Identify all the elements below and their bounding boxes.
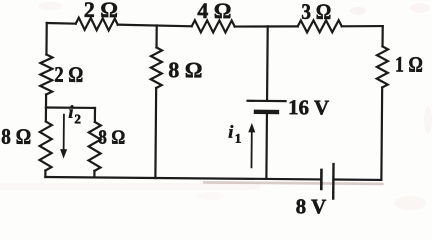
arrow i1 (upward current arrow) — [250, 130, 252, 167]
wire: 16V branch from top wire down to battery — [266, 26, 269, 101]
svg-text:2: 2 — [74, 111, 81, 126]
wire: stub from node wire down to second 8ohm — [94, 108, 96, 122]
wire: far left resistor bottom lead — [44, 171, 46, 177]
resistor R 8ohm (far left vertical) — [39, 121, 51, 170]
wire: top wire right segment to TR corner — [342, 25, 383, 28]
resistor R 8ohm (middle vertical) — [151, 47, 162, 88]
wire: left vertical between 2ohm and node A — [45, 95, 47, 122]
svg-text:2 Ω: 2 Ω — [54, 62, 83, 87]
wire: left vertical top lead — [45, 23, 47, 54]
svg-text:8 Ω: 8 Ω — [168, 57, 202, 82]
battery 16V long plate (top, positive) — [248, 100, 286, 103]
resistor R 8ohm (second vertical, parallel) — [88, 122, 100, 171]
wire: right vertical top lead — [381, 26, 383, 46]
svg-text:16 V: 16 V — [288, 95, 329, 119]
svg-text:1 Ω: 1 Ω — [395, 52, 423, 77]
wire: top wire between 2ohm and 4ohm (through node at middle branch) — [118, 25, 192, 27]
battery 16V short plate (bottom, negative, thick) — [256, 110, 277, 115]
battery 8V long plate (right, positive) — [332, 164, 335, 198]
wire shadow along bottom wire (scan artifact) — [204, 182, 382, 184]
node A horizontal wire of parallel 8ohm branch — [46, 106, 95, 109]
svg-text:1: 1 — [235, 131, 242, 146]
wire: middle vertical down to bottom wire — [154, 88, 157, 178]
resistor R 1ohm (right vertical) — [377, 46, 388, 87]
svg-text:8 Ω: 8 Ω — [1, 124, 31, 149]
svg-text:4 Ω: 4 Ω — [197, 0, 231, 23]
svg-text:3 Ω: 3 Ω — [301, 0, 331, 24]
svg-text:8 V: 8 V — [296, 194, 327, 215]
svg-text:8 Ω: 8 Ω — [98, 126, 125, 148]
battery 8V short plate (left, negative) — [320, 170, 323, 189]
wire: 16V branch below battery down to bottom wire — [265, 112, 268, 179]
wire: bottom wire from left corner to 8V battery — [45, 177, 321, 179]
resistor R 2ohm (left vertical) — [40, 54, 52, 94]
wire: top wire between 4ohm and 3ohm (through 16V branch node) — [235, 26, 298, 27]
arrow i2 (downward current arrow) — [63, 115, 65, 152]
wire: top wire left segment (TL corner to 2ohm resistor) — [47, 22, 76, 25]
resistor R 2ohm (top horizontal) — [76, 18, 118, 31]
wire: right vertical down to bottom wire — [380, 87, 383, 179]
wire: second resistor bottom lead — [93, 171, 95, 177]
svg-text:i: i — [68, 102, 73, 122]
svg-text:i: i — [228, 122, 233, 142]
wire: middle vertical top lead — [155, 25, 157, 47]
resistor R 4ohm (top horizontal) — [192, 20, 235, 32]
wire: bottom wire from 8V battery to right corner — [333, 178, 381, 181]
svg-text:2 Ω: 2 Ω — [84, 0, 118, 22]
resistor R 3ohm (top horizontal) — [298, 20, 342, 33]
